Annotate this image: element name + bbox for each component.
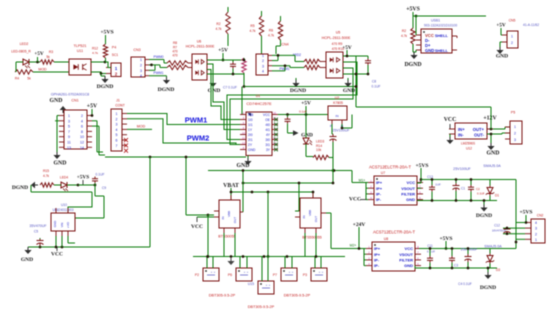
svg-text:U5: U5: [336, 31, 341, 35]
svg-text:FILTER: FILTER: [401, 192, 415, 197]
svg-text:R15: R15: [43, 169, 49, 173]
svg-text:LED4: LED4: [60, 176, 68, 180]
svg-text:2I1: 2I1: [248, 138, 253, 142]
svg-text:0.1UF: 0.1UF: [427, 250, 435, 254]
svg-text:12: 12: [80, 141, 84, 145]
svg-text:R3: R3: [49, 50, 53, 54]
svg-text:R4: R4: [15, 77, 19, 81]
svg-text:+5VS: +5VS: [77, 175, 89, 181]
svg-text:+5V: +5V: [496, 23, 506, 29]
svg-text:4.7k: 4.7k: [249, 29, 255, 33]
svg-text:CN3: CN3: [133, 48, 140, 52]
svg-text:GND: GND: [487, 151, 500, 157]
svg-text:GND: GND: [248, 148, 256, 152]
svg-text:5k: 5k: [27, 77, 31, 81]
svg-text:10: 10: [80, 135, 84, 139]
svg-text:6: 6: [81, 125, 83, 129]
svg-text:GND: GND: [21, 257, 33, 263]
svg-text:GND: GND: [53, 221, 57, 227]
svg-text:9: 9: [68, 135, 70, 139]
svg-text:5: 5: [68, 125, 70, 129]
svg-text:IP-: IP-: [376, 192, 382, 197]
svg-text:U6: U6: [197, 40, 202, 44]
svg-text:1: 1: [262, 54, 264, 58]
svg-text:U1: U1: [256, 94, 261, 98]
svg-text:C1: C1: [461, 187, 465, 191]
svg-text:+ +: + +: [211, 270, 216, 274]
svg-text:470: 470: [172, 54, 178, 58]
svg-text:4.7k: 4.7k: [92, 51, 98, 55]
svg-text:IN: IN: [221, 217, 225, 220]
svg-text:+5V: +5V: [218, 48, 228, 54]
svg-text:U11: U11: [77, 49, 83, 53]
svg-text:PWM0: PWM0: [154, 55, 164, 59]
svg-text:HCPL-2611-500E: HCPL-2611-500E: [322, 36, 351, 40]
svg-text:+5VS: +5VS: [416, 163, 429, 169]
svg-text:VCC: VCC: [191, 224, 203, 230]
svg-text:IN: IN: [302, 216, 306, 219]
svg-text:5: 5: [116, 133, 118, 137]
svg-text:R5: R5: [250, 24, 254, 28]
svg-text:USB1: USB1: [431, 19, 440, 23]
svg-text:2: 2: [535, 232, 537, 236]
svg-text:2: 2: [262, 59, 264, 63]
svg-text:1: 1: [535, 238, 537, 242]
svg-text:11: 11: [67, 141, 71, 145]
svg-text:1: 1: [68, 114, 70, 118]
svg-text:13: 13: [67, 146, 71, 150]
svg-text:25v100uF: 25v100uF: [461, 248, 478, 252]
svg-text:2: 2: [511, 41, 513, 45]
svg-text:GND: GND: [50, 98, 63, 104]
svg-text:C4 0.1UF: C4 0.1UF: [458, 282, 472, 286]
svg-text:IN: IN: [336, 114, 339, 118]
svg-text:+ +: + +: [266, 283, 271, 287]
svg-text:GND: GND: [496, 54, 508, 60]
svg-text:PWM2: PWM2: [187, 134, 210, 143]
svg-text:4: 4: [535, 221, 537, 225]
svg-text:4.7k: 4.7k: [43, 174, 49, 178]
svg-text:470 R9: 470 R9: [332, 42, 343, 46]
svg-text:+5V: +5V: [87, 104, 98, 110]
svg-text:7: 7: [68, 130, 70, 134]
svg-text:SMAJ5.0A: SMAJ5.0A: [483, 164, 501, 168]
svg-text:M2+: M2+: [350, 244, 357, 248]
svg-text:0.1UF: 0.1UF: [372, 85, 381, 89]
svg-text:CN1: CN1: [71, 99, 78, 103]
svg-text:OUT+: OUT+: [473, 127, 485, 132]
svg-text:K7805: K7805: [333, 101, 343, 105]
svg-text:3I1: 3I1: [265, 143, 270, 147]
svg-text:VCC: VCC: [51, 252, 63, 258]
svg-text:GND: GND: [425, 48, 434, 53]
svg-text:D3: D3: [496, 268, 500, 272]
svg-text:3: 3: [68, 119, 70, 123]
svg-text:6: 6: [116, 139, 118, 143]
svg-text:C9: C9: [102, 186, 106, 190]
svg-text:OUT: OUT: [314, 216, 318, 223]
svg-text:+ +: + +: [319, 270, 324, 274]
svg-text:R6: R6: [269, 29, 273, 33]
svg-text:IP-: IP-: [374, 263, 380, 268]
svg-text:IP+: IP+: [376, 180, 383, 185]
svg-text:+12V: +12V: [483, 116, 497, 122]
svg-text:7: 7: [116, 144, 118, 148]
svg-text:FILTER: FILTER: [399, 258, 413, 263]
svg-text:GND: GND: [237, 163, 250, 169]
svg-text:4.7k: 4.7k: [401, 34, 407, 38]
svg-text:VCC: VCC: [263, 113, 271, 117]
svg-text:PWM1: PWM1: [154, 71, 164, 75]
svg-text:C8: C8: [372, 80, 376, 84]
svg-text:CN5: CN5: [509, 19, 516, 23]
svg-text:41-A-11/62: 41-A-11/62: [523, 23, 539, 27]
svg-text:TLP521: TLP521: [74, 44, 87, 48]
svg-text:OUT-: OUT-: [474, 133, 485, 138]
svg-text:DGND: DGND: [480, 285, 496, 291]
svg-text:CN2: CN2: [537, 214, 544, 218]
svg-text:C5: C5: [34, 230, 38, 234]
svg-text:C3: C3: [454, 264, 458, 268]
svg-text:35V470UF: 35V470UF: [29, 224, 47, 228]
svg-text:+5V: +5V: [301, 101, 311, 107]
svg-text:LM2596S: LM2596S: [461, 142, 476, 146]
svg-text:+ +: + +: [244, 270, 249, 274]
svg-text:1I0: 1I0: [248, 118, 253, 122]
svg-text:1: 1: [116, 112, 118, 116]
svg-text:P3: P3: [303, 273, 307, 277]
svg-text:DBT305-9.5-2P: DBT305-9.5-2P: [209, 294, 236, 298]
svg-text:2: 2: [116, 117, 118, 121]
svg-text:DGND: DGND: [404, 62, 421, 68]
svg-text:3: 3: [514, 138, 516, 142]
svg-text:4: 4: [262, 69, 264, 73]
svg-text:10k: 10k: [316, 148, 322, 152]
svg-text:P6: P6: [228, 273, 232, 277]
svg-text:R8: R8: [173, 41, 177, 45]
svg-text:OUT: OUT: [233, 217, 237, 224]
svg-text:CN4: CN4: [281, 43, 288, 47]
svg-text:VCC: VCC: [444, 117, 457, 123]
svg-text:3: 3: [262, 64, 264, 68]
svg-text:IP-: IP-: [376, 197, 382, 202]
svg-text:ACS712ELCTR-20A-T: ACS712ELCTR-20A-T: [369, 165, 412, 170]
svg-text:0.1UF: 0.1UF: [96, 173, 105, 177]
svg-text:4I0: 4I0: [265, 123, 270, 127]
svg-text:903-132A1021D10100: 903-132A1021D10100: [424, 24, 457, 28]
svg-text:R2: R2: [402, 29, 406, 33]
svg-text:IN+: IN+: [458, 127, 465, 132]
svg-text:DGND: DGND: [476, 213, 492, 219]
svg-text:OE: OE: [265, 118, 271, 122]
svg-text:LED3: LED3: [316, 140, 324, 144]
svg-text:+5VS: +5VS: [520, 210, 533, 216]
svg-text:2: 2: [514, 132, 516, 136]
svg-text:25V100UF: 25V100UF: [453, 167, 471, 171]
svg-text:IP+: IP+: [374, 252, 381, 257]
svg-text:3I0: 3I0: [265, 138, 270, 142]
svg-text:+5V: +5V: [34, 51, 44, 57]
svg-text:1I1: 1I1: [248, 123, 253, 127]
svg-text:4: 4: [81, 119, 83, 123]
svg-text:3: 3: [535, 227, 537, 231]
svg-text:ACS712ELCTR-20A-T: ACS712ELCTR-20A-T: [373, 230, 416, 235]
svg-text:P2: P2: [195, 273, 199, 277]
svg-text:3: 3: [140, 69, 142, 73]
svg-text:MOD: MOD: [38, 68, 47, 72]
svg-text:VBB: VBB: [308, 210, 312, 216]
svg-text:SHELL: SHELL: [435, 33, 449, 38]
svg-text:+5VS: +5VS: [406, 7, 420, 13]
svg-text:R12: R12: [92, 47, 98, 51]
svg-text:GND: GND: [406, 197, 415, 202]
svg-text:CD74HC257E: CD74HC257E: [246, 101, 272, 106]
svg-text:1: 1: [140, 58, 142, 62]
svg-text:HCPL-2611-500E: HCPL-2611-500E: [186, 45, 215, 49]
svg-text:SHELL: SHELL: [435, 48, 449, 53]
svg-text:DBT305-9.5-2P: DBT305-9.5-2P: [248, 305, 275, 309]
svg-text:C12: C12: [494, 224, 500, 228]
svg-text:C7 0.1UF: C7 0.1UF: [223, 86, 237, 90]
svg-text:4: 4: [116, 128, 118, 132]
svg-text:1: 1: [511, 35, 513, 39]
svg-text:0.1uF: 0.1uF: [299, 110, 307, 114]
svg-text:GND: GND: [208, 88, 221, 94]
svg-text:LED-0805_R: LED-0805_R: [11, 50, 31, 54]
svg-text:DGND: DGND: [12, 185, 28, 191]
svg-text:C2: C2: [476, 187, 480, 191]
svg-text:P5: P5: [511, 111, 515, 115]
svg-text:8: 8: [81, 130, 83, 134]
svg-text:M1+: M1+: [359, 179, 366, 183]
svg-text:5k: 5k: [46, 55, 50, 59]
svg-text:SMAJ5.0A: SMAJ5.0A: [484, 245, 502, 249]
svg-text:BTS50055: BTS50055: [218, 235, 235, 239]
svg-text:U7: U7: [381, 171, 386, 175]
svg-text:GPHA261-0702A001C8: GPHA261-0702A001C8: [51, 93, 89, 97]
svg-text:VSOUT: VSOUT: [401, 186, 415, 191]
svg-text:2: 2: [81, 114, 83, 118]
svg-text:PWM1: PWM1: [185, 116, 208, 125]
svg-text:4.7k: 4.7k: [215, 27, 221, 31]
svg-text:IP-: IP-: [374, 258, 380, 263]
svg-text:U8: U8: [384, 237, 389, 241]
svg-text:IP+: IP+: [374, 246, 381, 251]
svg-text:+5VS: +5VS: [100, 30, 113, 36]
svg-text:J1: J1: [116, 99, 120, 103]
svg-text:1UF: 1UF: [435, 183, 441, 187]
svg-text:U10: U10: [61, 203, 67, 207]
svg-text:D1: D1: [495, 194, 499, 198]
svg-text:+VO: +VO: [66, 221, 70, 228]
svg-text:U12: U12: [466, 147, 472, 151]
svg-text:4: 4: [140, 74, 142, 78]
svg-text:VSOUT: VSOUT: [399, 252, 413, 257]
svg-text:CONT: CONT: [115, 104, 125, 108]
svg-text:DGND: DGND: [97, 84, 114, 90]
svg-text:GND: GND: [54, 161, 67, 167]
svg-text:14: 14: [80, 146, 84, 150]
svg-text:3: 3: [116, 123, 118, 127]
svg-text:IP+: IP+: [376, 186, 383, 191]
svg-text:VCC: VCC: [407, 180, 416, 185]
svg-text:GND: GND: [404, 263, 413, 268]
svg-text:U15: U15: [248, 282, 254, 286]
svg-text:DBT305-9.5-2P: DBT305-9.5-2P: [284, 294, 311, 298]
svg-text:P7: P7: [273, 273, 277, 277]
svg-text:U2: U2: [335, 96, 340, 100]
svg-text:VCC: VCC: [349, 197, 361, 203]
svg-text:VIN: VIN: [60, 223, 64, 228]
svg-text:+ +: + +: [289, 270, 294, 274]
svg-text:0.1UF: 0.1UF: [477, 192, 485, 196]
svg-text:LED2: LED2: [20, 42, 29, 46]
svg-text:2I0: 2I0: [248, 133, 253, 137]
svg-text:R2: R2: [216, 22, 220, 26]
svg-text:4.7k: 4.7k: [268, 34, 274, 38]
svg-text:P4: P4: [112, 46, 116, 50]
svg-text:MOD: MOD: [137, 125, 146, 129]
svg-text:4I1: 4I1: [265, 128, 270, 132]
svg-text:VCC: VCC: [405, 246, 414, 251]
svg-text:DGND: DGND: [158, 87, 175, 93]
svg-text:VBB: VBB: [227, 211, 231, 217]
svg-text:1: 1: [514, 125, 516, 129]
svg-text:DGND: DGND: [290, 88, 306, 94]
svg-text:SC1: SC1: [112, 53, 119, 57]
svg-text:2: 2: [140, 63, 142, 67]
svg-text:IN-: IN-: [458, 133, 464, 138]
